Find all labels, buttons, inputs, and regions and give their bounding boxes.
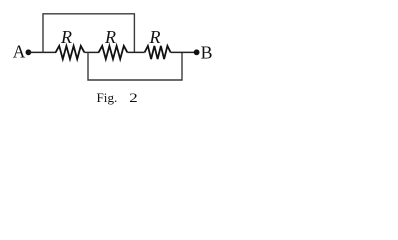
resistor R2: [99, 46, 128, 59]
svg-text:A: A: [13, 42, 26, 62]
top bypass wire (node1 to node3 over R1,R2): [43, 14, 134, 53]
wire R3 to B: [171, 51, 197, 53]
svg-text:R: R: [149, 27, 161, 47]
wire R1 to R2: [84, 51, 99, 53]
bottom bypass wire (node2 to node4 under R2,R3): [88, 52, 182, 80]
svg-text:B: B: [201, 42, 213, 62]
svg-text:R: R: [104, 27, 116, 47]
wire A to R1: [28, 51, 56, 53]
node A junction dot: [26, 49, 32, 55]
svg-text:2: 2: [129, 90, 138, 105]
resistor R1: [56, 46, 85, 59]
node B junction dot: [194, 49, 200, 55]
wire R2 to R3: [127, 51, 144, 53]
svg-text:R: R: [60, 27, 72, 47]
svg-text:Fig.: Fig.: [97, 90, 118, 105]
resistor R3: [145, 46, 171, 59]
